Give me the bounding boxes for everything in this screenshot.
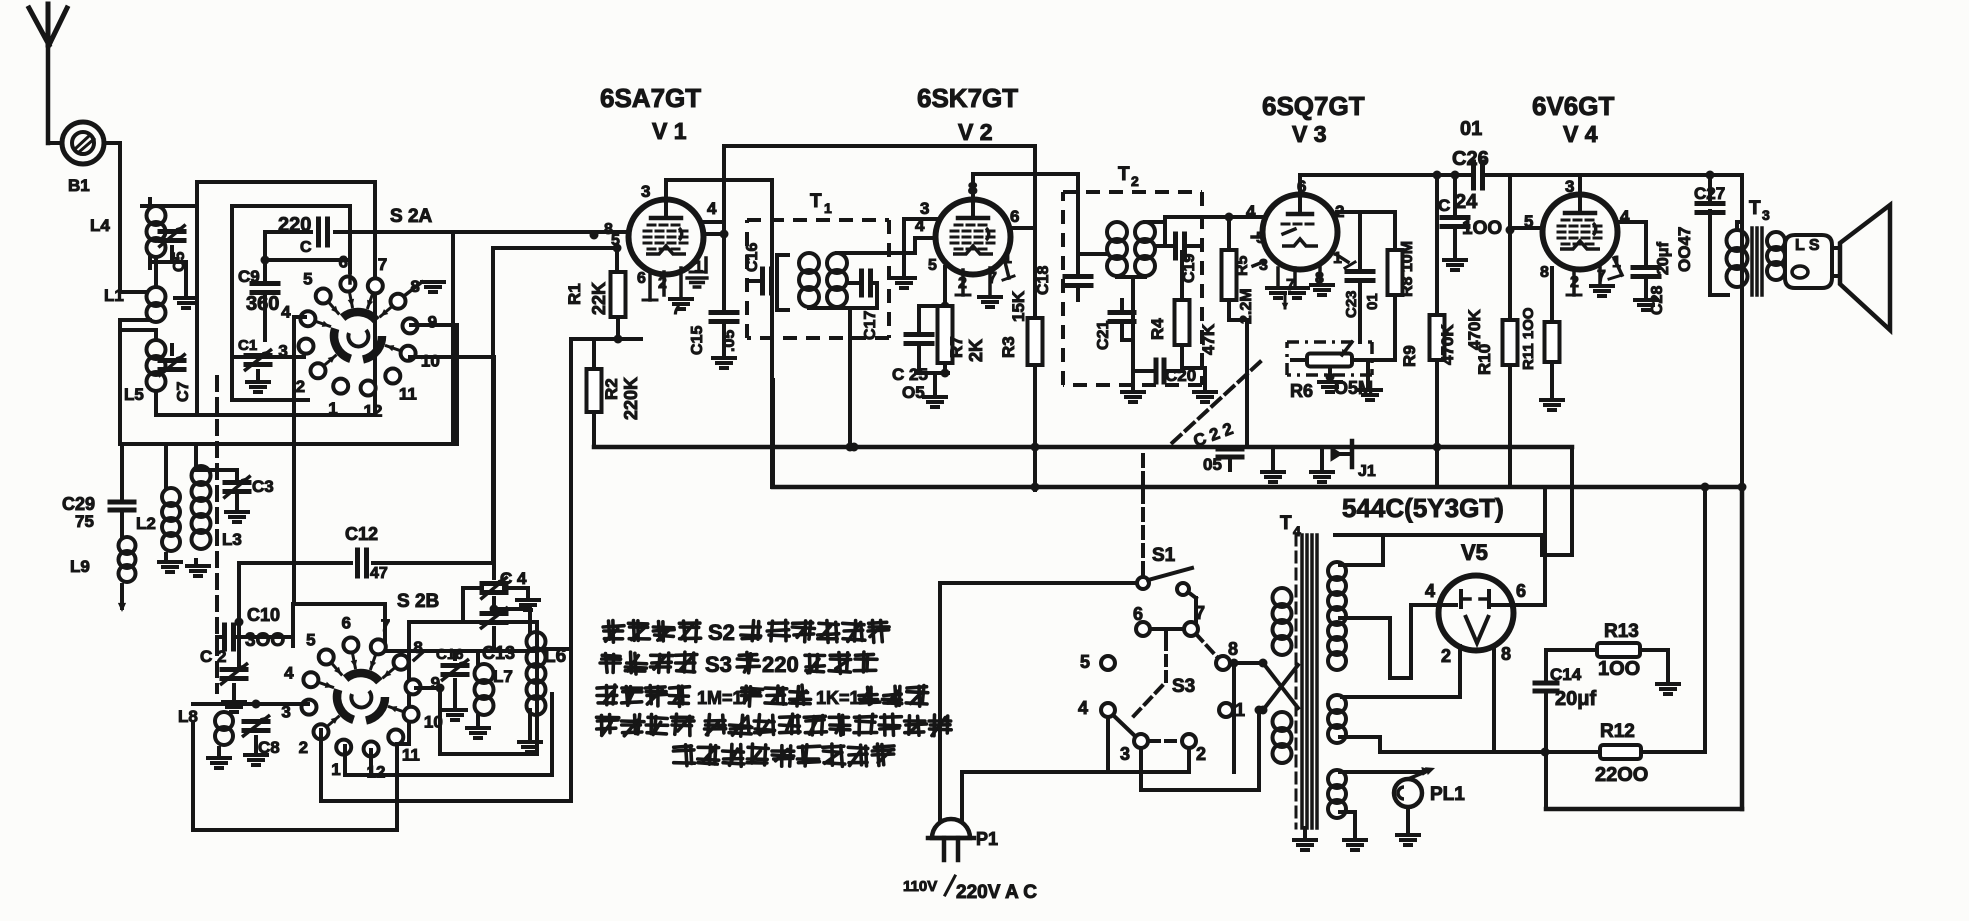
- svg-text:544C(5Y3GT): 544C(5Y3GT): [1342, 493, 1504, 523]
- svg-text:C7: C7: [175, 381, 192, 402]
- svg-text:11: 11: [402, 745, 420, 764]
- svg-text:R1: R1: [565, 283, 584, 305]
- svg-text:C26: C26: [1452, 148, 1489, 170]
- svg-text:8: 8: [1228, 639, 1238, 659]
- svg-text:22K: 22K: [589, 282, 609, 315]
- svg-text:47K: 47K: [1199, 323, 1218, 355]
- svg-text:T: T: [1280, 513, 1292, 534]
- svg-text:5: 5: [928, 257, 937, 274]
- svg-text:3: 3: [1565, 177, 1574, 196]
- svg-text:C12: C12: [345, 524, 378, 544]
- svg-text:7: 7: [378, 255, 387, 274]
- svg-text:4: 4: [1246, 202, 1256, 221]
- svg-text:C15: C15: [689, 326, 706, 355]
- svg-text:7: 7: [1195, 603, 1205, 623]
- svg-text:8: 8: [1540, 264, 1549, 281]
- svg-text:R12: R12: [1600, 721, 1635, 742]
- svg-text:3: 3: [1762, 207, 1770, 223]
- svg-text:S 2B: S 2B: [397, 591, 439, 612]
- svg-text:1: 1: [824, 200, 832, 216]
- svg-text:C21: C21: [1095, 321, 1112, 350]
- svg-text:1K=1: 1K=1: [816, 688, 860, 708]
- svg-text:24: 24: [1455, 191, 1478, 213]
- svg-text:PL1: PL1: [1430, 784, 1465, 805]
- svg-text:R4: R4: [1148, 318, 1167, 340]
- svg-text:S1: S1: [1152, 545, 1176, 566]
- svg-text:R11 1OO: R11 1OO: [1520, 307, 1537, 370]
- svg-text:V 3: V 3: [1292, 121, 1327, 147]
- svg-text:8: 8: [1501, 644, 1511, 664]
- svg-text:4: 4: [284, 663, 294, 682]
- svg-text:L7: L7: [493, 667, 513, 686]
- svg-text:R13: R13: [1604, 621, 1639, 642]
- svg-text:8: 8: [413, 638, 422, 657]
- svg-text:6SA7GT: 6SA7GT: [600, 83, 701, 113]
- svg-text:R3: R3: [999, 336, 1018, 358]
- svg-text:L S: L S: [1795, 237, 1820, 254]
- svg-text:C14: C14: [1550, 665, 1582, 684]
- svg-text:C1: C1: [238, 337, 257, 354]
- svg-text:4: 4: [281, 302, 291, 321]
- svg-text:C: C: [300, 239, 312, 256]
- svg-text:6SK7GT: 6SK7GT: [917, 83, 1018, 113]
- svg-text:C10: C10: [247, 605, 280, 625]
- svg-text:6: 6: [1010, 207, 1019, 226]
- svg-text:T: T: [1118, 164, 1130, 185]
- svg-text:6V6GT: 6V6GT: [1532, 91, 1614, 121]
- svg-text:C 4: C 4: [500, 569, 527, 588]
- svg-text:10: 10: [424, 713, 443, 732]
- svg-text:1: 1: [331, 760, 340, 779]
- svg-text:10: 10: [421, 352, 440, 371]
- svg-text:C17: C17: [862, 311, 879, 340]
- svg-text:T: T: [810, 191, 822, 212]
- svg-text:L2: L2: [136, 514, 156, 533]
- svg-text:15K: 15K: [1009, 290, 1028, 322]
- svg-text:T: T: [1749, 198, 1761, 219]
- svg-text:05: 05: [1203, 455, 1222, 474]
- svg-text:1M=1: 1M=1: [697, 688, 743, 708]
- svg-text:V 2: V 2: [958, 119, 993, 145]
- svg-text:220: 220: [278, 214, 311, 236]
- svg-text:22OO: 22OO: [1595, 764, 1648, 786]
- svg-text:47: 47: [370, 565, 388, 582]
- svg-text:470K: 470K: [1465, 309, 1484, 350]
- svg-text:110V: 110V: [903, 878, 937, 895]
- svg-text:2K: 2K: [966, 339, 986, 362]
- svg-text:01: 01: [1460, 118, 1482, 140]
- svg-text:R7: R7: [947, 336, 966, 358]
- svg-text:5: 5: [1080, 652, 1090, 672]
- svg-text:1OO: 1OO: [1598, 658, 1640, 680]
- svg-text:C29: C29: [62, 494, 95, 514]
- svg-text:2: 2: [296, 377, 305, 396]
- svg-text:S2: S2: [708, 620, 735, 645]
- svg-text:220: 220: [762, 652, 799, 677]
- svg-text:6: 6: [637, 270, 646, 287]
- svg-text:12: 12: [364, 402, 383, 421]
- svg-text:20μf: 20μf: [1655, 241, 1672, 275]
- svg-text:C16: C16: [436, 646, 464, 663]
- svg-text:2: 2: [1196, 744, 1206, 764]
- svg-text:L9: L9: [70, 557, 90, 576]
- svg-text:6SQ7GT: 6SQ7GT: [1262, 91, 1365, 121]
- svg-text:R9: R9: [1400, 345, 1419, 367]
- svg-text:2: 2: [1441, 646, 1451, 666]
- svg-text:L1: L1: [104, 286, 124, 305]
- svg-text:C18: C18: [1035, 266, 1052, 295]
- svg-text:S3: S3: [1172, 676, 1195, 697]
- svg-text:11: 11: [399, 384, 417, 403]
- svg-text:C27: C27: [1694, 184, 1725, 203]
- svg-text:3: 3: [1120, 744, 1130, 764]
- svg-text:6: 6: [339, 252, 348, 271]
- svg-text:P1: P1: [976, 829, 998, 849]
- svg-text:4: 4: [707, 199, 717, 218]
- svg-text:220K: 220K: [621, 377, 641, 420]
- svg-text:6: 6: [1133, 604, 1143, 624]
- svg-text:C23: C23: [1343, 290, 1360, 318]
- svg-text:01: 01: [1364, 293, 1381, 310]
- svg-text:J1: J1: [1358, 463, 1376, 480]
- svg-text:360: 360: [246, 293, 279, 315]
- svg-text:B1: B1: [68, 176, 90, 195]
- svg-text:3: 3: [641, 182, 650, 201]
- svg-text:75: 75: [75, 512, 94, 531]
- svg-text:L4: L4: [90, 216, 110, 235]
- svg-text:6: 6: [342, 613, 351, 632]
- svg-text:R8 10M: R8 10M: [1399, 241, 1416, 297]
- svg-text:1OO: 1OO: [1462, 218, 1502, 239]
- svg-text:1: 1: [328, 399, 337, 418]
- svg-text:2: 2: [299, 738, 308, 757]
- svg-text:5: 5: [303, 270, 312, 289]
- svg-text:2: 2: [1131, 173, 1139, 189]
- svg-text:1: 1: [1235, 700, 1245, 720]
- svg-text:5: 5: [306, 631, 315, 650]
- svg-text:O5: O5: [902, 383, 925, 402]
- svg-text:6: 6: [1516, 581, 1526, 601]
- svg-text:R2: R2: [602, 378, 621, 400]
- svg-text:L5: L5: [124, 385, 144, 404]
- svg-text:V 1: V 1: [652, 118, 687, 144]
- svg-text:220V A C: 220V A C: [956, 882, 1037, 903]
- svg-text:C: C: [1438, 196, 1450, 215]
- svg-text:7: 7: [381, 616, 390, 635]
- svg-text:R6: R6: [1290, 381, 1313, 401]
- svg-text:V 4: V 4: [1563, 121, 1598, 147]
- svg-text:L3: L3: [222, 530, 242, 549]
- svg-text:3: 3: [1259, 257, 1268, 274]
- svg-text:C3: C3: [252, 477, 274, 496]
- svg-text:R5: R5: [1234, 255, 1251, 276]
- svg-text:4: 4: [1078, 698, 1088, 718]
- svg-text:S 2A: S 2A: [390, 206, 433, 227]
- svg-text:9: 9: [428, 313, 437, 332]
- svg-text:3OO: 3OO: [245, 630, 285, 651]
- svg-text:C9: C9: [238, 267, 260, 286]
- svg-text:4: 4: [1425, 581, 1435, 601]
- svg-text:470K: 470K: [1438, 324, 1457, 365]
- svg-text:S3: S3: [705, 652, 732, 677]
- svg-text:C13: C13: [482, 643, 515, 663]
- svg-text:C16: C16: [744, 243, 761, 272]
- svg-text:V5: V5: [1461, 540, 1488, 565]
- svg-text:OO47: OO47: [1675, 227, 1694, 272]
- svg-text:20μf: 20μf: [1555, 688, 1596, 710]
